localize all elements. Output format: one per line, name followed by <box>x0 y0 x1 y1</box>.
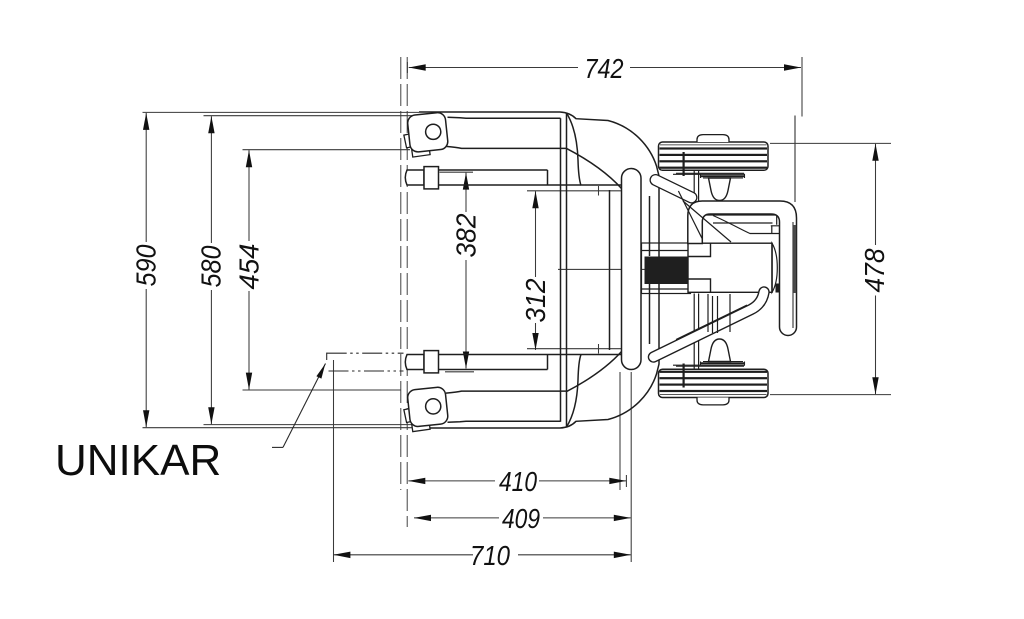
svg-text:312: 312 <box>520 278 551 322</box>
svg-text:742: 742 <box>585 53 624 84</box>
svg-text:382: 382 <box>450 213 481 257</box>
svg-text:590: 590 <box>131 244 162 286</box>
svg-text:580: 580 <box>196 245 227 287</box>
svg-text:UNIKAR: UNIKAR <box>55 436 221 485</box>
svg-text:710: 710 <box>470 540 510 571</box>
svg-text:410: 410 <box>499 466 537 497</box>
svg-text:478: 478 <box>859 248 890 292</box>
svg-text:454: 454 <box>233 244 264 290</box>
svg-text:409: 409 <box>502 503 540 534</box>
